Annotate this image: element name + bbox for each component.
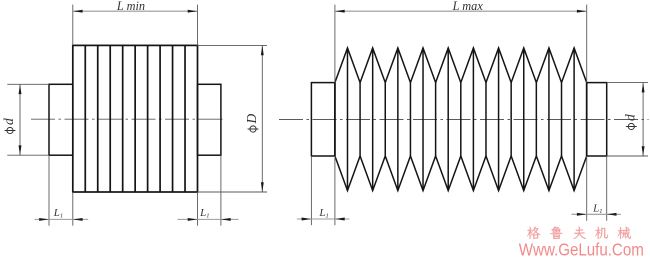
dimension L1 (right figure, left) line and arrows bbox=[297, 218, 350, 220]
dimension phi-d (left) label bbox=[1, 118, 16, 134]
dimension L1 (right figure, right) extension lines bbox=[586, 156, 588, 221]
dimension L max extension lines bbox=[334, 5, 336, 83]
dimension phi-d (right) extension lines bbox=[607, 82, 648, 84]
dimension L1 (right figure, right) line and arrows bbox=[572, 213, 621, 215]
svg-text:Www.GeLufu.Com: Www.GeLufu.Com bbox=[519, 240, 644, 260]
extended bellows bottom zigzag profile bbox=[335, 156, 587, 191]
svg-text:D: D bbox=[244, 114, 259, 125]
svg-text:L max: L max bbox=[452, 0, 484, 13]
centerline of extended coupling bbox=[279, 119, 649, 121]
dimension L min line bbox=[73, 10, 198, 12]
extended bellows top zigzag profile bbox=[335, 48, 587, 83]
dimension phi-d (left) extension lines bbox=[7, 83, 49, 85]
left hub stub (extended view) bbox=[311, 83, 335, 156]
dimension phi-D label bbox=[244, 114, 259, 133]
compressed bellows fold lines bbox=[85, 45, 185, 192]
svg-text:d: d bbox=[623, 114, 638, 121]
dimension phi-d (left) line bbox=[19, 84, 21, 155]
dimension L1 (left figure, left) extension lines bbox=[48, 155, 50, 226]
left hub stub (compressed view) bbox=[49, 84, 73, 155]
centerline of compressed coupling bbox=[31, 118, 224, 120]
dimension phi-D line bbox=[261, 45, 263, 192]
dimension L1 (left figure, right) line and arrows bbox=[178, 218, 239, 220]
extended bellows long fold lines under peaks bbox=[347, 48, 574, 191]
dimension phi-D extension lines bbox=[198, 44, 268, 46]
dimension L min extension lines bbox=[72, 5, 74, 46]
extended bellows right end face bbox=[586, 83, 588, 156]
dimension L1 (right figure, left) extension lines bbox=[310, 156, 312, 225]
extended bellows short fold lines under valleys bbox=[360, 83, 561, 156]
dimension L1 (left figure, right) extension lines bbox=[197, 192, 199, 226]
extended bellows left end face bbox=[334, 83, 336, 156]
dimension L1 (left figure, left) line and arrows bbox=[35, 218, 89, 220]
dimension L max line bbox=[335, 10, 587, 12]
dimension phi-d (right) label bbox=[623, 114, 638, 130]
svg-text:d: d bbox=[1, 118, 16, 125]
right hub stub (extended view) bbox=[587, 83, 607, 156]
watermark Chinese text "GeLufu Machinery" bbox=[527, 226, 630, 239]
dimension phi-d (right) line bbox=[642, 83, 644, 156]
svg-text:L min: L min bbox=[116, 0, 145, 13]
right hub stub (compressed view) bbox=[198, 84, 221, 155]
compressed bellows body outline bbox=[73, 45, 198, 192]
